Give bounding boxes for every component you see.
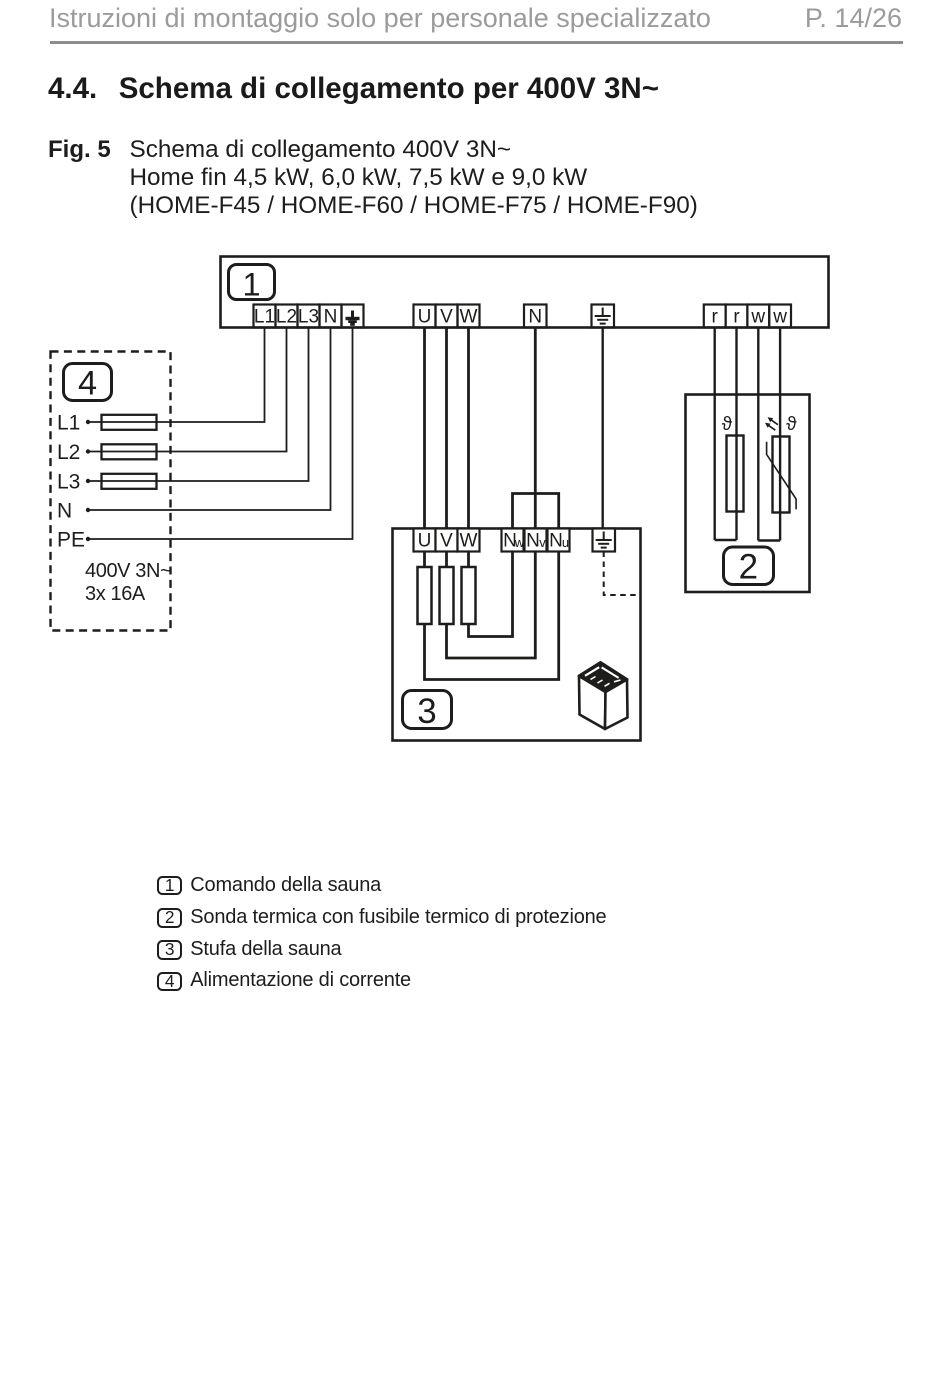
svg-text:1: 1: [242, 266, 260, 302]
heater label 3: [403, 691, 452, 731]
wire V element top: [445, 552, 448, 568]
wire PE run: [88, 327, 353, 539]
svg-text:L1: L1: [57, 412, 80, 435]
terminal r2 (sensor): [726, 305, 748, 328]
svg-text:W: W: [460, 307, 478, 328]
svg-text:W: W: [460, 531, 478, 552]
wire W drop: [467, 327, 470, 529]
terminal L3: [298, 305, 320, 328]
wire EV to Nv: [447, 552, 536, 659]
terminal W (heater): [458, 529, 480, 552]
terminal Nw (heater): [502, 529, 525, 552]
terminal PE (filled earth symbol): [342, 305, 364, 328]
heater box 3 outline: [393, 529, 641, 741]
wire U drop: [423, 327, 426, 529]
svg-text:ϑ: ϑ: [722, 414, 733, 435]
svg-text:3x 16A: 3x 16A: [85, 583, 146, 605]
svg-text:N: N: [526, 531, 540, 552]
svg-text:N: N: [528, 307, 542, 328]
heating element EU: [418, 567, 432, 624]
header rule: [50, 41, 903, 44]
node dot L1: [86, 420, 90, 424]
svg-text:PE: PE: [57, 529, 85, 552]
sauna heater icon: [579, 663, 628, 730]
wire r loop bottom: [715, 539, 737, 541]
wire r2 drop: [735, 327, 737, 540]
legend row 1: [157, 876, 182, 895]
terminal U (controller): [414, 305, 436, 328]
supply box 4 (dashed): [51, 352, 171, 631]
svg-text:L3: L3: [57, 471, 80, 494]
wire W element top: [467, 552, 470, 568]
legend row 3: [157, 940, 182, 959]
node dot L3: [86, 479, 90, 483]
terminal V (controller): [436, 305, 458, 328]
svg-text:V: V: [440, 531, 453, 552]
terminal W (controller): [458, 305, 480, 328]
thermal fuse element: [727, 436, 744, 512]
sensor label 2: [724, 547, 774, 587]
wire U element top: [423, 552, 426, 568]
controller label 1: [229, 265, 275, 303]
svg-text:U: U: [418, 307, 432, 328]
fuse F1: [102, 415, 157, 430]
svg-text:ϑ: ϑ: [786, 414, 797, 435]
terminal N: [320, 305, 342, 328]
wire earth drop: [602, 327, 604, 529]
section heading: [48, 74, 659, 104]
controller box 1 outline: [221, 257, 829, 328]
wire N branch bracket: [513, 494, 559, 530]
heating element EV: [440, 567, 454, 624]
svg-text:400V 3N~: 400V 3N~: [85, 560, 171, 582]
wire r1 drop: [714, 327, 716, 540]
svg-text:N: N: [57, 500, 72, 523]
svg-text:2: 2: [739, 548, 758, 587]
svg-text:L2: L2: [57, 441, 80, 464]
svg-text:N: N: [549, 531, 563, 552]
sensor box 2 outline: [686, 395, 810, 593]
wire N drop: [534, 327, 537, 529]
terminal w2 (sensor): [769, 305, 791, 328]
terminal Nu (heater): [548, 529, 570, 552]
terminal r1 (sensor): [704, 305, 726, 328]
NTC sensor element: [767, 437, 797, 513]
node dot N: [86, 508, 90, 512]
NTC arrows icon: [765, 417, 778, 430]
svg-text:w: w: [772, 307, 787, 328]
wire w1 drop: [757, 327, 759, 541]
wire EW to Nw: [469, 552, 513, 637]
fuse F3: [102, 474, 157, 489]
terminal L2: [276, 305, 298, 328]
wire L3 run: [88, 327, 309, 481]
wire EU to Nu: [425, 552, 559, 680]
svg-text:V: V: [440, 307, 453, 328]
legend row 2: [157, 908, 182, 927]
svg-text:w: w: [750, 307, 765, 328]
svg-text:r: r: [733, 307, 740, 328]
terminal U (heater): [414, 529, 436, 552]
supply label 4: [64, 364, 112, 403]
terminal L1: [254, 305, 276, 328]
terminal earth (controller, line earth symbol): [592, 305, 615, 328]
wire V drop: [445, 327, 448, 529]
svg-text:4: 4: [78, 364, 97, 402]
svg-text:u: u: [562, 535, 569, 550]
wire L1 run: [88, 327, 265, 422]
node dot L2: [86, 449, 90, 453]
terminal Nv (heater): [525, 529, 547, 552]
terminal w1 (sensor): [747, 305, 769, 328]
node dot PE: [86, 537, 90, 541]
wire L2 run: [88, 327, 287, 452]
svg-text:U: U: [418, 531, 432, 552]
svg-text:L2: L2: [276, 307, 297, 328]
terminal earth (heater): [593, 529, 616, 552]
svg-text:v: v: [539, 535, 546, 550]
legend row 4: [157, 972, 182, 991]
wire w loop bottom: [758, 539, 780, 541]
page header: [49, 5, 902, 32]
svg-text:r: r: [712, 307, 719, 328]
svg-text:N: N: [324, 307, 338, 328]
figure caption: [48, 136, 111, 164]
wire w2 drop: [779, 327, 781, 541]
svg-text:3: 3: [417, 692, 436, 731]
terminal N out (controller): [524, 305, 547, 328]
fuse F2: [102, 444, 157, 459]
wire N run: [88, 327, 331, 510]
earth dashed link: [604, 552, 641, 596]
svg-text:L3: L3: [298, 307, 319, 328]
svg-text:L1: L1: [254, 307, 275, 328]
terminal V (heater): [436, 529, 458, 552]
heating element EW: [462, 567, 476, 624]
svg-text:w: w: [514, 535, 525, 550]
